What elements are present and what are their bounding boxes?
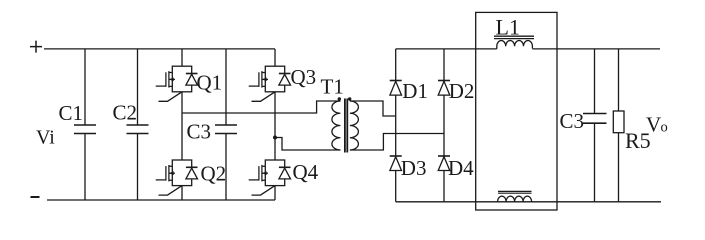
transistor Q3 xyxy=(249,66,291,101)
wire right leg midpoint xyxy=(274,92,276,160)
transformer T1 secondary winding xyxy=(350,101,359,150)
inductor L1 xyxy=(497,40,533,48)
svg-text:D2: D2 xyxy=(449,79,475,103)
diode D2 xyxy=(438,81,450,95)
transistor Q2 xyxy=(156,160,198,195)
transformer T1 core xyxy=(345,99,347,153)
svg-text:Q3: Q3 xyxy=(291,65,317,89)
svg-text:Vi: Vi xyxy=(36,127,55,149)
svg-text:T1: T1 xyxy=(321,75,344,99)
diode D3 xyxy=(390,157,402,171)
diode D4 xyxy=(438,157,450,171)
wire bottom rail secondary xyxy=(396,201,661,203)
diode D1 xyxy=(390,81,402,95)
wire Q1 leg top xyxy=(181,49,183,66)
minus terminal xyxy=(31,196,40,198)
inductor L1 core bars xyxy=(494,36,534,38)
wire bottom rail primary xyxy=(47,199,275,201)
wire secondary top to rectifier xyxy=(350,101,396,116)
svg-text:C3: C3 xyxy=(187,120,212,144)
capacitor C3 output xyxy=(594,49,596,202)
svg-text:V: V xyxy=(646,113,661,137)
svg-text:Q2: Q2 xyxy=(201,162,227,186)
svg-text:C2: C2 xyxy=(113,101,138,125)
capacitor C1 xyxy=(84,49,86,200)
resistor R5 xyxy=(618,49,620,202)
wire Q3 leg top xyxy=(274,49,276,66)
svg-text:Q1: Q1 xyxy=(197,71,223,95)
svg-text:Q4: Q4 xyxy=(293,160,319,184)
svg-text:L1: L1 xyxy=(496,15,520,40)
svg-text:D4: D4 xyxy=(448,156,474,180)
inductor output bottom core bars xyxy=(498,191,532,193)
wire right leg midpoint to primary bottom xyxy=(275,138,340,151)
wire bridge midline to primary top xyxy=(182,101,340,113)
capacitor C3 bridge xyxy=(225,49,227,200)
wire secondary bottom to rectifier xyxy=(350,134,444,151)
svg-text:o: o xyxy=(661,120,668,136)
wire right rectifier leg xyxy=(443,49,445,202)
wire Q4 leg bottom xyxy=(274,186,276,200)
transistor Q1 xyxy=(156,66,198,101)
svg-text:C1: C1 xyxy=(59,101,84,125)
node right leg to primary bottom xyxy=(273,136,277,140)
filter box xyxy=(476,12,557,210)
node polarity dot primary xyxy=(338,97,341,100)
capacitor C2 xyxy=(137,49,139,200)
wire left rectifier leg xyxy=(395,49,397,202)
transistor Q4 xyxy=(249,160,291,195)
wire top rail primary xyxy=(44,48,275,50)
svg-text:D3: D3 xyxy=(401,156,427,180)
wire Q2 leg bottom xyxy=(181,186,183,200)
wire top rail secondary xyxy=(396,48,660,50)
svg-text:C3: C3 xyxy=(560,109,585,133)
transformer T1 primary winding xyxy=(332,101,341,150)
plus terminal xyxy=(30,41,42,53)
svg-text:D1: D1 xyxy=(402,79,428,103)
node polarity dot secondary xyxy=(348,97,351,100)
wire left leg midpoint xyxy=(181,92,183,160)
inductor output bottom xyxy=(498,196,532,202)
